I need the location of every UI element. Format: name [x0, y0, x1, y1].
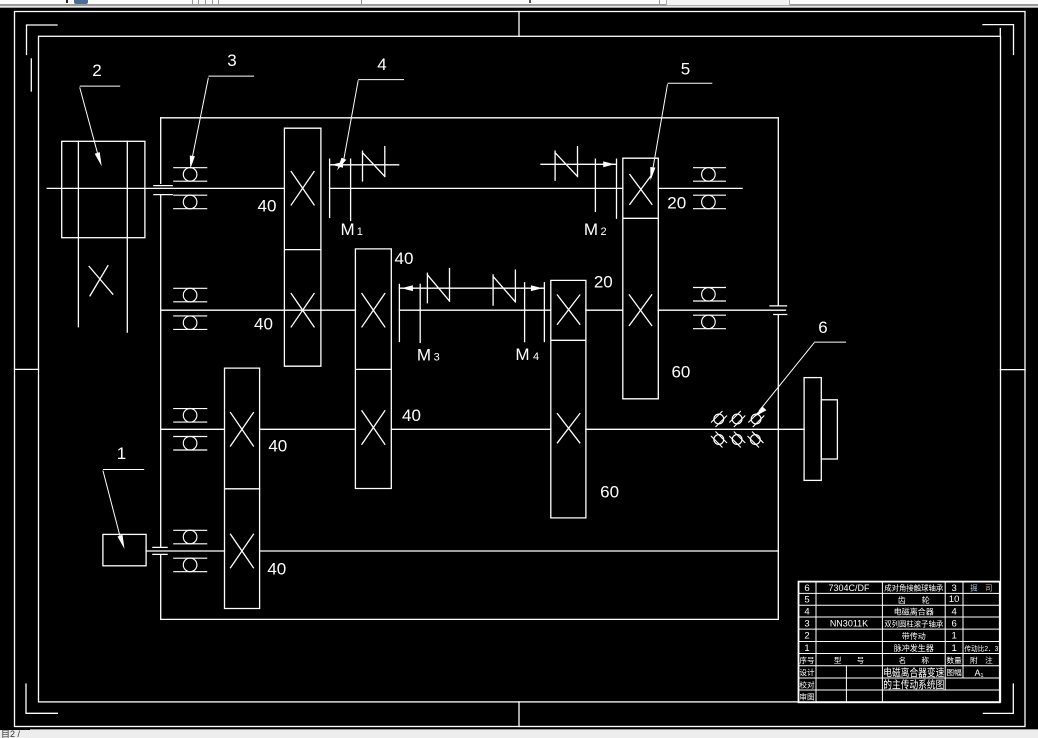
- bearing shaft I right upper: [693, 168, 726, 182]
- fold mark bottom center: [518, 702, 520, 727]
- clutch M3+M4 engagement line: [399, 287, 544, 289]
- fold mark top center: [518, 12, 520, 37]
- svg-text:传动比2．3: 传动比2．3: [964, 644, 998, 653]
- svg-text:A₁: A₁: [974, 668, 983, 678]
- svg-text:审图: 审图: [799, 691, 814, 701]
- svg-text:60: 60: [671, 363, 690, 382]
- svg-text:M: M: [341, 220, 355, 239]
- svg-text:1: 1: [951, 643, 956, 654]
- gear B1 cross: [231, 413, 254, 446]
- tick near top-right corner: [999, 29, 1001, 37]
- svg-text:掘 司: 掘 司: [970, 584, 992, 593]
- gear block D outline: [623, 158, 659, 399]
- svg-text:4: 4: [804, 606, 809, 617]
- svg-text:3: 3: [434, 352, 440, 364]
- svg-text:M: M: [417, 346, 431, 365]
- output flange large disc: [804, 378, 821, 481]
- svg-text:双列圆柱滚子轴承: 双列圆柱滚子轴承: [884, 619, 943, 629]
- svg-text:的主传动系统图: 的主传动系统图: [883, 678, 944, 691]
- svg-text:1: 1: [804, 643, 809, 654]
- gear A1 cross: [291, 172, 314, 205]
- corner mark top-left: [27, 25, 58, 55]
- svg-text:校对: 校对: [799, 679, 815, 689]
- svg-text:10: 10: [949, 594, 960, 605]
- gear C2 cross: [362, 411, 385, 444]
- svg-text:2: 2: [600, 226, 606, 238]
- leader 6: [759, 342, 846, 411]
- gearbox housing bottom wall: [161, 618, 779, 620]
- svg-text:40: 40: [268, 437, 287, 456]
- svg-text:2: 2: [92, 61, 101, 80]
- bearing shaft I right lower: [693, 195, 726, 209]
- corner mark bottom-left: [26, 684, 57, 713]
- gear A2 cross: [291, 294, 314, 327]
- gear B2 cross: [231, 534, 254, 567]
- svg-text:序号: 序号: [799, 655, 815, 665]
- leader 5: [652, 83, 712, 172]
- gear D1 cross: [630, 175, 652, 205]
- svg-text:2: 2: [804, 631, 809, 642]
- clutch M1 N symbol: [363, 147, 385, 181]
- svg-text:40: 40: [395, 249, 414, 268]
- svg-text:40: 40: [267, 560, 286, 579]
- pulse generator rollers upper row: [714, 414, 724, 424]
- svg-text:电磁离合器变速: 电磁离合器变速: [883, 666, 944, 679]
- bearing shaft I left lower: [173, 195, 207, 209]
- svg-text:成对角接触球轴承: 成对角接触球轴承: [884, 583, 943, 593]
- bearing shaft II left upper: [173, 288, 207, 302]
- svg-text:6: 6: [804, 583, 809, 594]
- gearbox housing right wall: [777, 118, 779, 620]
- clutch M2 verticals: [595, 159, 616, 218]
- clutch M2 N symbol: [555, 147, 577, 181]
- bearing shaft III left lower: [173, 437, 207, 451]
- shaft IV: [146, 550, 778, 552]
- svg-text:图幅: 图幅: [947, 667, 963, 677]
- shaft I: [161, 187, 742, 189]
- gearbox housing left wall: [160, 118, 162, 620]
- svg-text:1: 1: [951, 631, 956, 642]
- belt drive right strand: [126, 141, 128, 332]
- motor 2 box: [62, 141, 145, 237]
- svg-text:4: 4: [377, 55, 386, 74]
- clutch M3 N symbol: [427, 269, 449, 303]
- bearing shaft IV left upper: [173, 530, 207, 544]
- svg-text:4: 4: [533, 351, 539, 363]
- svg-text:40: 40: [402, 406, 421, 425]
- svg-text:脉冲发生器: 脉冲发生器: [894, 643, 934, 653]
- clutch M3 arrow: [401, 285, 413, 291]
- svg-text:40: 40: [258, 197, 277, 216]
- title block outer border: [799, 582, 1000, 703]
- clutch M4 N symbol: [493, 270, 515, 305]
- motor 2 centerline / input shaft: [47, 187, 161, 189]
- gear block B outline: [225, 368, 260, 608]
- svg-text:带传动: 带传动: [902, 631, 926, 641]
- corner mark top-right: [983, 25, 1014, 55]
- svg-text:3: 3: [804, 618, 809, 629]
- svg-text:3: 3: [951, 583, 956, 594]
- svg-text:电磁离合器: 电磁离合器: [894, 607, 934, 617]
- svg-text:设计: 设计: [799, 667, 815, 677]
- gear D2 cross: [629, 295, 651, 326]
- pulse generator rollers lower row: [714, 435, 724, 445]
- svg-text:5: 5: [681, 60, 690, 79]
- svg-text:1: 1: [117, 444, 126, 463]
- black canvas notch below frame bottom-left: [0, 722, 30, 730]
- shaft II: [161, 309, 786, 311]
- wall pass-through ticks shaft I: [154, 186, 172, 195]
- svg-text:名 称: 名 称: [899, 655, 930, 665]
- bearing shaft II right upper: [693, 288, 726, 302]
- svg-text:6: 6: [818, 318, 827, 337]
- clutch M1 arrow: [332, 162, 344, 168]
- bearing shaft II left lower: [173, 316, 207, 330]
- fold mark left center: [15, 368, 39, 370]
- svg-text:20: 20: [594, 273, 613, 292]
- belt cross mark: [89, 266, 113, 296]
- clutch M1 verticals: [330, 159, 351, 220]
- bearing shaft II right lower: [693, 315, 726, 329]
- output flange hub: [821, 400, 837, 459]
- belt drive left strand: [77, 141, 79, 326]
- status bar: [0, 729, 1038, 738]
- svg-text:4: 4: [951, 606, 956, 617]
- svg-text:5: 5: [804, 595, 809, 606]
- clutch M2 arrow: [603, 161, 615, 167]
- svg-text:6: 6: [951, 618, 956, 629]
- title block column lines: [816, 582, 963, 703]
- svg-text:20: 20: [667, 194, 686, 213]
- svg-text:附 注: 附 注: [970, 655, 993, 665]
- gearbox housing top wall: [161, 117, 779, 119]
- leader 3: [192, 76, 254, 160]
- svg-text:7304C/DF: 7304C/DF: [828, 583, 870, 593]
- gear block E outline: [551, 280, 586, 518]
- gear C1 cross: [362, 294, 385, 327]
- svg-text:数量: 数量: [947, 655, 963, 665]
- shaft III: [161, 428, 804, 430]
- gear block C outline: [355, 249, 391, 489]
- gear E2 cross: [557, 414, 579, 443]
- svg-text:1: 1: [357, 226, 363, 238]
- gear E1 cross: [557, 295, 579, 324]
- bearing shaft IV left lower: [173, 558, 207, 572]
- fold mark right center: [1001, 369, 1026, 371]
- svg-text:60: 60: [600, 483, 619, 502]
- leader 1: [103, 470, 144, 543]
- tick near top-left corner: [30, 59, 32, 91]
- corner mark bottom-right: [983, 684, 1013, 713]
- svg-text:M: M: [515, 345, 529, 364]
- leader 4: [343, 80, 404, 163]
- svg-text:M: M: [584, 220, 598, 239]
- clutch M1 engagement line: [330, 164, 399, 166]
- svg-text:3: 3: [227, 51, 236, 70]
- bearing shaft I left upper: [173, 168, 207, 182]
- wall pass-through ticks shaft II right: [770, 306, 787, 315]
- title block row lines: [799, 593, 1000, 690]
- leader 2: [80, 86, 121, 155]
- svg-text:型 号: 型 号: [834, 656, 865, 665]
- wall pass-through ticks shaft IV: [153, 547, 167, 554]
- clutch M4 verticals: [525, 283, 545, 342]
- bearing shaft III left upper: [173, 409, 207, 423]
- motor 1 box: [103, 534, 146, 565]
- clutch M2 engagement line: [541, 163, 617, 165]
- gear block A outline: [284, 128, 321, 366]
- toolbar strip (bottom edge of CAD app toolbar): [0, 0, 1038, 8]
- svg-text:NN3011K: NN3011K: [830, 618, 868, 628]
- clutch M4 arrow: [531, 285, 543, 291]
- svg-text:齿 轮: 齿 轮: [898, 595, 930, 605]
- clutch M3 verticals: [399, 284, 420, 342]
- svg-text:40: 40: [254, 315, 273, 334]
